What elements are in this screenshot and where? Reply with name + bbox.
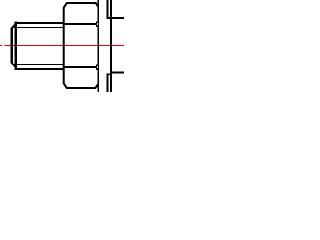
right view top face line [106, 17, 124, 19]
head chamfer arc end top [96, 22, 99, 27]
right view outer vertical lower [106, 73, 108, 92]
shaft outline top [15, 22, 65, 24]
thread minor line bottom [14, 64, 65, 65]
facet end white notch top [97, 23, 98, 25]
head right edge projection line [97, 0, 99, 92]
right view outer vertical upper [106, 0, 108, 19]
head facet line bottom [64, 66, 97, 68]
hex head outline [64, 3, 98, 88]
right view bottom face line [106, 73, 112, 75]
thread minor line top [14, 27, 65, 28]
facet end white notch bottom [97, 66, 98, 68]
chamfer edge circle line [15, 22, 17, 70]
right view inner vertical [110, 0, 112, 92]
head facet line top [64, 23, 97, 25]
centerline main [4, 45, 124, 46]
centerline short dash [0, 45, 2, 46]
background [0, 0, 124, 92]
chamfer diagonal top [11, 24, 16, 29]
chamfer diagonal bottom [11, 62, 16, 67]
right view step line [110, 72, 124, 74]
bolt end face [11, 28, 13, 63]
head chamfer arc end bottom [96, 65, 99, 70]
shaft outline bottom [15, 68, 65, 70]
